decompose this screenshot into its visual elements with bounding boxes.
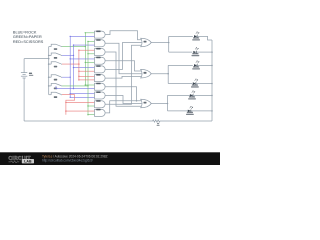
wire U1 out to OR1 in1	[105, 31, 142, 40]
node bus tap SW5	[48, 85, 50, 87]
label D3 part	[192, 68, 200, 69]
wire bottom rail right segment	[170, 120, 213, 122]
label D6 value	[187, 112, 193, 113]
wire OR1 split vertical	[168, 36, 170, 52]
node bus tap SW2	[48, 55, 50, 57]
wire OR3 split vertical	[167, 95, 169, 111]
label SW4	[54, 79, 57, 81]
label D3 value	[193, 66, 199, 67]
footer logo resistor squiggle	[9, 161, 20, 163]
wire U7 out to OR3 in1	[105, 87, 142, 101]
led D2	[193, 47, 198, 53]
led D3	[194, 61, 199, 67]
svg-text:BLUE=ROCK: BLUE=ROCK	[13, 30, 37, 34]
and-gate U2	[95, 39, 106, 47]
wire LED row 5 left	[168, 94, 193, 96]
footer logo LAB box	[22, 159, 34, 163]
label D4 part	[191, 86, 199, 87]
wire OR2 split vertical	[167, 65, 169, 83]
and-gate U10	[95, 109, 106, 117]
switch SW6	[49, 92, 62, 94]
wire net B green	[62, 41, 95, 116]
node OR1 split	[168, 42, 170, 44]
and-gate U8	[95, 91, 106, 99]
wire net B blue	[62, 36, 95, 98]
or-gate U11	[141, 38, 152, 47]
label D4 value	[192, 84, 198, 85]
switch SW5	[49, 84, 62, 86]
and-gate U9	[95, 100, 106, 108]
label R1 value	[157, 123, 159, 124]
wire LED row 6 left	[168, 110, 193, 112]
footer bar	[0, 152, 220, 165]
node bus tap SW4	[48, 76, 50, 78]
wire U9 out to OR1 in3	[105, 45, 142, 104]
svg-text:RED=SCISSORS: RED=SCISSORS	[13, 40, 44, 44]
resistor R1	[147, 120, 170, 122]
label D5 value	[189, 96, 195, 97]
or-gate U12	[141, 69, 152, 78]
node rail junction LED4	[211, 83, 213, 85]
label D6 part	[186, 114, 194, 115]
wire OR1 output	[151, 42, 169, 44]
led D6	[188, 106, 193, 112]
and-gate U3	[95, 48, 106, 56]
switch SW3	[49, 62, 62, 64]
wire battery plus to switch bus	[24, 58, 49, 60]
label V1 name	[29, 75, 33, 76]
label SW2	[54, 57, 57, 59]
wire right rail	[211, 40, 213, 121]
label R1 name	[157, 125, 160, 126]
switch SW1	[49, 44, 62, 46]
wire battery minus down	[23, 81, 25, 121]
wire U6 out to OR2 in3	[105, 76, 142, 78]
node rail junction LED3	[211, 65, 213, 67]
node rail junction LED5	[211, 95, 213, 97]
label SW6	[54, 96, 57, 98]
or-gate U13	[141, 99, 152, 108]
label D2 part	[192, 55, 200, 56]
wire OR2 output	[151, 73, 169, 75]
label V1 value 9V	[29, 73, 32, 74]
wire OR3 output	[151, 103, 168, 105]
wire U10 out to OR3 in1 row	[105, 101, 136, 113]
switch SW4	[49, 75, 62, 77]
label SW1	[54, 48, 57, 50]
wire blue stub row to U7 lower pin	[56, 86, 74, 89]
wire LED5 to rail	[193, 94, 212, 96]
node rail junction LED6	[211, 110, 213, 112]
wire U8 out to OR3 in2	[105, 96, 142, 104]
label D2 value	[192, 53, 198, 54]
wire U2 out to OR2 in2	[105, 43, 142, 73]
wire U3 out to OR3 in3	[105, 52, 142, 106]
and-gate U7	[95, 83, 106, 91]
wire LED row 1 left	[169, 35, 193, 37]
wire LED row 3 left	[168, 64, 193, 66]
wire U5 out to OR1 in2	[105, 43, 142, 70]
led D1	[194, 32, 199, 38]
node bus tap SW3	[48, 63, 50, 65]
wire LED1 to rail jog	[197, 36, 212, 40]
and-gate U5	[95, 65, 106, 73]
node rail junction LED2	[211, 51, 213, 53]
wire LED6 to rail	[191, 110, 212, 112]
wire LED row 4 left	[168, 83, 192, 85]
svg-text:GREEN=PAPER: GREEN=PAPER	[13, 35, 42, 39]
wire net A blue	[62, 44, 95, 89]
wire LED3 to rail	[197, 64, 212, 66]
and-gate U6	[95, 74, 106, 82]
wire net A green	[62, 32, 95, 86]
node OR2 split	[167, 73, 169, 75]
wire bottom rail left segment	[24, 120, 146, 122]
wire LED4 to rail	[196, 83, 212, 85]
svg-text:http://circuitlab.com/c6xv34e2: http://circuitlab.com/c6xv34e2qp5zt/	[42, 159, 93, 163]
wire LED2 to rail	[196, 51, 212, 53]
wire net A red	[62, 50, 95, 81]
battery V1 9V	[21, 59, 27, 81]
label D1 value	[193, 37, 199, 38]
switch SW2	[49, 53, 62, 55]
and-gate U1	[95, 31, 106, 39]
svg-text:LAB: LAB	[24, 160, 32, 164]
label D1 part	[192, 39, 200, 40]
and-gate U4	[95, 57, 106, 65]
wire net B red	[62, 95, 95, 115]
wire LED row 2 left	[169, 51, 193, 53]
label SW3	[54, 66, 57, 68]
node OR3 split	[167, 103, 169, 105]
node U7/U10 shared input junction	[136, 100, 138, 102]
wire U4 out to OR2 in1	[105, 61, 142, 71]
wire switch bus vertical	[48, 47, 50, 95]
label D5 part	[188, 98, 196, 99]
label SW5	[54, 88, 57, 90]
node battery-bus junction	[48, 58, 50, 60]
led D4	[193, 79, 198, 85]
led D5	[190, 91, 195, 97]
